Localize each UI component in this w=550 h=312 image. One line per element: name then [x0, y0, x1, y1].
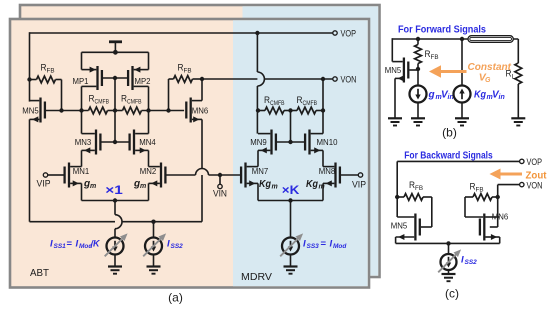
wire MN9-MN10 gate link	[277, 141, 304, 143]
svg-text:(b): (b)	[442, 126, 457, 140]
transistor MN4	[130, 130, 149, 155]
resistor RFB (c right)	[473, 194, 492, 201]
wire MP gate to CMFB node	[114, 78, 116, 111]
wire VOP top rail	[30, 32, 333, 34]
label Constant	[468, 61, 512, 73]
ground c ISS2	[442, 274, 456, 281]
wire b CS2 vertical	[461, 39, 463, 86]
ground b MN5	[388, 118, 402, 125]
resistor RL	[515, 63, 522, 84]
svg-text:MN8: MN8	[319, 166, 336, 176]
svg-text:VON: VON	[527, 181, 543, 192]
svg-text:×K: ×K	[282, 183, 300, 197]
node MN6 drain junction	[200, 77, 204, 81]
label (a)	[168, 291, 183, 305]
resistor RFB (ABT left)	[37, 76, 56, 83]
label x1	[105, 183, 123, 197]
label VIP left	[37, 179, 51, 190]
wire c MN6 gate loop	[490, 197, 498, 227]
wire c RFBr left loop	[465, 197, 483, 217]
wire c ISS2 to gnd	[448, 270, 450, 274]
node MP1 drain-MN3 drain	[79, 108, 83, 112]
resistor RFB right lead-left	[169, 79, 174, 111]
svg-text:L: L	[512, 74, 516, 81]
svg-text:CMFB: CMFB	[270, 100, 285, 107]
wire MP2 drain vertical	[148, 86, 150, 110]
wire VON rail	[202, 78, 333, 80]
svg-text:MN6: MN6	[492, 212, 509, 222]
node ISS2 junction	[151, 220, 155, 224]
svg-text:VIP: VIP	[37, 179, 51, 190]
svg-text:MN4: MN4	[139, 137, 156, 147]
node c ISS2 junction	[446, 241, 450, 245]
svg-text:SS2: SS2	[465, 259, 478, 266]
svg-text:VOP: VOP	[527, 157, 543, 168]
svg-text:CMFB: CMFB	[127, 99, 142, 106]
label c VON	[527, 181, 543, 192]
resistor RCMFB (MDRV left)	[265, 107, 284, 114]
label MN7	[252, 166, 269, 176]
wire c RFBl left lead	[397, 196, 404, 198]
svg-text:g: g	[428, 90, 435, 101]
resistor RCMFB (ABT left)	[89, 107, 108, 114]
label MN5 ABT	[22, 106, 39, 116]
wire c RFBl right loop	[421, 197, 432, 227]
wire left feedback vertical	[29, 32, 31, 101]
wire MN7 source vertical	[257, 183, 259, 200]
label VG	[479, 72, 491, 85]
svg-text:MN10: MN10	[317, 137, 338, 147]
label RL	[506, 69, 516, 81]
wire b top rail	[392, 38, 518, 40]
wire VIN stem	[219, 175, 221, 184]
wire MDRV tail rail	[258, 200, 323, 202]
wire MDRV left vertical lower	[256, 86, 258, 134]
wire c MN5 source corner	[395, 237, 397, 243]
svg-text:MN5: MN5	[385, 65, 402, 75]
svg-text:MN9: MN9	[250, 137, 267, 147]
label ISS3	[303, 239, 347, 251]
terminal VIP right	[358, 173, 362, 177]
svg-text:Kg: Kg	[306, 179, 318, 190]
wire MN8 gate to VIP	[341, 174, 358, 176]
label RFB c right	[470, 182, 484, 194]
title For Forward Signals	[398, 24, 486, 36]
resistor RFB left lead	[30, 79, 37, 81]
resistor RCMFB (MDRV right)	[297, 107, 316, 114]
svg-text:m: m	[140, 183, 146, 190]
label gm MN1	[83, 179, 96, 191]
svg-text:SS1: SS1	[54, 243, 67, 250]
label MN6 c	[492, 212, 509, 222]
svg-text:MN2: MN2	[140, 166, 157, 176]
ground b CS1	[411, 118, 425, 125]
wire b MN5 gate lead	[409, 69, 418, 71]
wire b RFB bottom lead	[417, 64, 419, 86]
wire MP2 source vertical	[148, 52, 150, 69]
wire CMFB mid	[108, 110, 123, 112]
svg-text:in: in	[499, 94, 505, 101]
node b RFB top	[416, 37, 420, 41]
node R_FB1 left junction	[27, 77, 31, 81]
current source ISS2	[145, 238, 162, 255]
title For Backward Signals	[404, 150, 493, 162]
svg-text:MDRV: MDRV	[241, 271, 272, 283]
wire MP1 drain vertical	[81, 86, 83, 110]
label MN8	[319, 166, 336, 176]
transistor MN5 (ABT)	[30, 98, 45, 123]
node MN10 drain junction on VON	[321, 77, 325, 81]
wire MN8 source vertical	[322, 183, 324, 200]
wire c RFBr right lead	[492, 196, 498, 198]
wire MN6 source vertical	[201, 119, 203, 221]
wire CMFB to MN gates	[114, 111, 116, 143]
mod arrow ISS2 c	[438, 249, 461, 272]
svg-text:(a): (a)	[168, 291, 183, 305]
supply VDD symbol	[109, 42, 122, 53]
label RCMFB ABT left	[89, 94, 110, 106]
wire MDRV CMFB row a	[258, 110, 265, 112]
svg-text:Constant: Constant	[468, 61, 512, 73]
label VIP right	[352, 180, 366, 191]
wire b MN5 drain vertical	[391, 38, 393, 61]
ground ISS1	[108, 267, 122, 274]
hop MDRV vertical over VON	[257, 72, 264, 86]
svg-text:VIP: VIP	[352, 180, 366, 191]
svg-text:Mod: Mod	[333, 243, 347, 250]
label VON	[341, 75, 357, 86]
label MN2	[140, 166, 157, 176]
terminal c VON	[520, 182, 524, 186]
node c RFB left junction	[395, 195, 399, 199]
label MN5 b	[385, 65, 402, 75]
transistor MN8	[323, 163, 340, 188]
svg-text:MN1: MN1	[73, 166, 90, 176]
terminal VON	[333, 77, 337, 81]
wire tail to ISS1 lower	[114, 229, 116, 238]
transistor MN7	[241, 163, 258, 188]
label MN5 c	[391, 221, 408, 231]
svg-text:MN6: MN6	[192, 106, 209, 116]
label MN3	[75, 137, 92, 147]
label RFB left	[41, 63, 55, 75]
svg-text:FB: FB	[415, 185, 423, 192]
wire VIP to MN1 gate	[48, 174, 64, 176]
node VIN junction	[218, 173, 222, 177]
label KgmVin	[474, 90, 505, 102]
label xK	[282, 183, 300, 197]
svg-text:Kg: Kg	[474, 90, 486, 101]
wire MN2 gate to VIN	[167, 174, 196, 176]
label Kgm MN7	[259, 179, 278, 191]
wire b MN5 source corner	[394, 78, 396, 118]
wire MN6 drain vertical	[201, 79, 203, 101]
svg-text:MN7: MN7	[252, 166, 269, 176]
wire MN4 source to MN2 drain	[148, 150, 150, 166]
svg-text:For Forward Signals: For Forward Signals	[398, 24, 486, 36]
node CMFB center	[113, 108, 117, 112]
wire MDRV left vertical upper	[256, 33, 258, 72]
svg-text:=: =	[67, 239, 73, 250]
transistor MN5 (b)	[392, 58, 408, 83]
svg-text:CMFB: CMFB	[95, 99, 110, 106]
svg-text:MP2: MP2	[135, 76, 151, 86]
transistor MN6 (ABT)	[186, 98, 202, 123]
svg-text:MP1: MP1	[73, 76, 89, 86]
svg-text:m: m	[272, 184, 278, 191]
label ISS2 c	[461, 255, 477, 267]
node tail MDRV	[288, 198, 292, 202]
wire MDRV right vertical	[322, 79, 324, 134]
wire b RL to gnd	[517, 84, 519, 118]
label gmVin	[428, 90, 454, 102]
wire MN3 drain vertical	[81, 111, 83, 134]
node VDD stem junction	[113, 50, 118, 55]
arrow Constant VG	[429, 65, 467, 78]
svg-text:Kg: Kg	[259, 179, 271, 190]
svg-text:FB: FB	[47, 68, 55, 75]
terminal c VOP	[520, 159, 524, 163]
svg-text:ABT: ABT	[30, 267, 50, 279]
svg-text:CMFB: CMFB	[303, 100, 318, 107]
wire RFB right lead	[56, 80, 62, 111]
label RFB b	[425, 49, 439, 61]
transistor MP2	[128, 66, 148, 90]
svg-text:MN5: MN5	[391, 221, 408, 231]
transmission line capsule	[468, 36, 513, 43]
wire tail to ISS1 upper	[114, 201, 116, 215]
label RCMFB MDRV left	[264, 95, 285, 107]
wire c MN6 source corner	[499, 237, 501, 243]
svg-text:/K: /K	[90, 239, 101, 250]
node b CS2 top	[460, 37, 464, 41]
transistor MN10	[305, 130, 323, 155]
label MN6 ABT	[192, 106, 209, 116]
wire b CS1 to gnd	[417, 103, 419, 119]
label ISS1	[50, 239, 101, 251]
wire VIN continues	[209, 174, 241, 176]
transistor MN6 (c)	[480, 214, 500, 241]
svg-text:m: m	[90, 183, 96, 190]
svg-text:=: =	[321, 239, 327, 250]
label MN1	[73, 166, 90, 176]
svg-text:For Backward Signals: For Backward Signals	[404, 150, 493, 162]
transistor MN3	[82, 130, 101, 155]
wire ISS2 to gnd	[153, 255, 155, 267]
resistor RCMFB (ABT right)	[123, 107, 142, 114]
node MDRV CMFB center	[288, 108, 292, 112]
label gm MN2	[133, 179, 146, 191]
wire MN4 drain vertical	[148, 111, 150, 134]
svg-text:SS3: SS3	[307, 243, 320, 250]
node b gate-RFB junction	[416, 67, 420, 71]
wire b right vertical	[517, 39, 519, 63]
transistor MN1	[65, 163, 82, 188]
svg-text:MN3: MN3	[75, 137, 92, 147]
wire MN2 source vertical	[148, 183, 150, 200]
hop ISS1 wire over ISS2 rail	[115, 215, 122, 229]
mod arrow ISS1	[105, 233, 128, 256]
label VIN	[213, 189, 227, 200]
node RFB1-MN5 gate junction	[59, 108, 63, 112]
wire c left vertical	[396, 161, 398, 217]
transistor MN5 (c)	[396, 214, 420, 241]
current source KgmVin	[454, 86, 471, 103]
transistor MP1	[82, 66, 102, 90]
resistor RFB (b)	[415, 45, 422, 64]
front page panel	[10, 19, 369, 288]
label MP2	[135, 76, 151, 86]
terminal VOP	[333, 31, 337, 35]
ground ISS3	[284, 267, 298, 274]
wire ISS2 stem	[153, 222, 155, 238]
svg-text:FB: FB	[431, 54, 439, 61]
wire c bottom rail	[396, 242, 500, 244]
wire ISS1 to gnd	[114, 255, 116, 267]
label ISS2	[167, 239, 183, 251]
node MDRV CMFB right	[321, 108, 325, 112]
transistor MN9	[258, 130, 276, 155]
svg-text:FB: FB	[476, 187, 484, 194]
terminal VIP left	[43, 173, 47, 177]
wire CMFB row left	[46, 110, 89, 112]
label MN9	[250, 137, 267, 147]
label RFB right	[178, 63, 192, 75]
mod arrow ISS3	[280, 233, 303, 256]
svg-text:FB: FB	[184, 68, 192, 75]
node MP gate junction	[113, 76, 117, 80]
wire MN1 source vertical	[81, 183, 83, 200]
wire c ISS2 stem	[448, 243, 450, 254]
wire MP1-MP2 gate link	[103, 77, 127, 79]
wire MN3-MN4 gate link	[102, 141, 129, 143]
svg-text:VON: VON	[341, 75, 357, 86]
current source ISS2 (c)	[441, 254, 457, 270]
wire MP1 source vertical	[81, 52, 83, 69]
node tail ABT	[113, 198, 117, 202]
mod arrow ISS2	[143, 233, 166, 256]
wire b RFB top lead	[417, 39, 419, 45]
terminal VIN	[218, 184, 222, 188]
wire MN9 source to MN7 drain	[257, 150, 259, 166]
node MN gate junction	[113, 140, 117, 144]
node VOP branch junction	[255, 31, 259, 35]
resistor RFB (c left)	[404, 194, 423, 201]
svg-text:G: G	[485, 77, 491, 84]
current source ISS1	[107, 238, 124, 255]
wire MN5 source vertical	[29, 119, 31, 221]
hop VIN wire over MN6 source	[196, 169, 209, 175]
label MDRV	[241, 271, 272, 283]
svg-text:×1: ×1	[105, 183, 123, 197]
wire MN10 source to MN8 drain	[322, 150, 324, 166]
label Zout	[526, 170, 547, 182]
svg-text:SS2: SS2	[171, 243, 184, 250]
resistor RFB (ABT right)	[174, 76, 193, 83]
transistor MN2	[149, 163, 166, 188]
wire c top rail	[397, 160, 519, 162]
current source ISS3	[282, 238, 299, 255]
svg-text:MN5: MN5	[22, 106, 39, 116]
label (c)	[445, 287, 459, 301]
label (b)	[442, 126, 457, 140]
label MN10	[317, 137, 338, 147]
wire ISS2 rail	[30, 221, 203, 223]
label RCMFB MDRV right	[297, 95, 318, 107]
wire CMFB row right	[142, 110, 185, 112]
wire RFB2 to VON node	[193, 78, 203, 80]
label c VOP	[527, 157, 543, 168]
wire tail to ISS3	[290, 201, 292, 238]
node MN9-10 gate junction	[288, 140, 292, 144]
wire c VON lead	[498, 185, 520, 197]
label Kgm MN8	[306, 179, 325, 191]
arrow Zout	[490, 169, 523, 180]
back page panel	[20, 5, 380, 277]
wire MN3 source to MN1 drain	[81, 150, 83, 166]
svg-text:VIN: VIN	[213, 189, 227, 200]
svg-text:VOP: VOP	[341, 29, 357, 40]
label MP1	[73, 76, 89, 86]
label RCMFB ABT right	[121, 94, 142, 106]
ground b CS2	[455, 118, 469, 125]
wire VDD rail	[82, 51, 149, 53]
ground b RL	[511, 118, 525, 125]
label ABT	[30, 267, 50, 279]
wire MDRV CMFB row b	[316, 110, 323, 112]
node MDRV CMFB left	[256, 108, 260, 112]
current source gmVin	[410, 86, 427, 103]
wire MN1-MN2 tail rail	[82, 200, 149, 202]
wire b CS2 to gnd	[461, 103, 463, 119]
wire ISS3 to gnd	[290, 255, 292, 267]
node RFB2 bottom junction	[166, 108, 170, 112]
wire MDRV CMFB to MN gates	[290, 111, 292, 143]
label MN4	[139, 137, 156, 147]
label RFB c left	[409, 180, 423, 192]
ground ISS2	[147, 267, 161, 274]
node MP2 drain-MN4 drain	[146, 108, 150, 112]
node c RFB right junction	[496, 195, 500, 199]
wire MDRV CMFB mid	[284, 110, 297, 112]
label VOP	[341, 29, 357, 40]
svg-text:(c): (c)	[445, 287, 459, 301]
